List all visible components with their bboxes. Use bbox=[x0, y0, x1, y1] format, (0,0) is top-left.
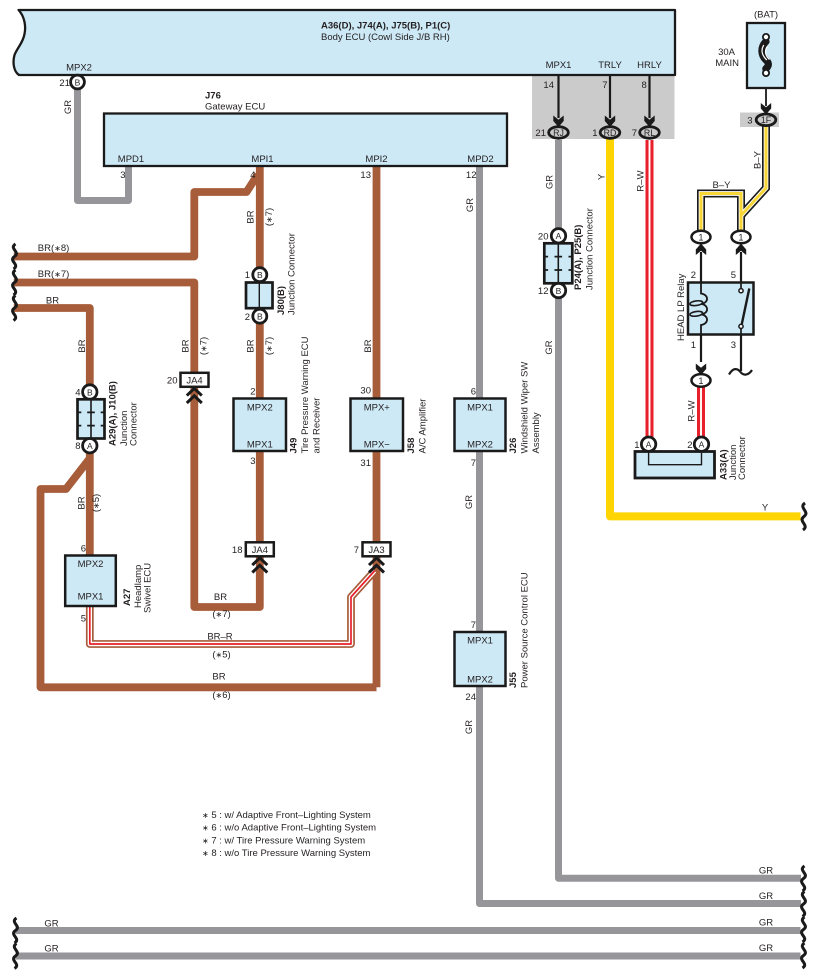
svg-text:Connector: Connector bbox=[737, 436, 748, 480]
break symbol at BR left bbox=[13, 296, 17, 321]
wire BR(*8) from left break to MPI1 branch bbox=[14, 175, 258, 257]
svg-text:2: 2 bbox=[250, 387, 255, 398]
pin 12 of Gateway ECU bbox=[466, 170, 477, 181]
svg-text:A: A bbox=[646, 440, 652, 450]
svg-text:GR: GR bbox=[545, 175, 556, 189]
svg-text:B–Y: B–Y bbox=[713, 180, 732, 191]
svg-text:A/C Amplifier: A/C Amplifier bbox=[418, 399, 429, 454]
wire BR(*7) from left break through JA4(20), U-turn to JA4(18) and J49 pin 3 bbox=[14, 283, 260, 608]
svg-text:1: 1 bbox=[634, 440, 639, 451]
wire GR from Body ECU MPX2 pin 21 to Gateway ECU MPD1 pin 3 bbox=[78, 88, 129, 201]
svg-text:BR: BR bbox=[246, 339, 257, 352]
svg-text:J26: J26 bbox=[508, 438, 519, 454]
label BR on MPI2 wire bbox=[363, 339, 374, 352]
svg-text:J76: J76 bbox=[205, 91, 221, 102]
svg-text:BR: BR bbox=[212, 672, 225, 683]
break symbol at GR right line 4 bbox=[802, 943, 806, 968]
svg-text:5: 5 bbox=[81, 614, 86, 625]
svg-text:Assembly: Assembly bbox=[531, 412, 542, 453]
label GR at right break line 4 bbox=[759, 943, 773, 954]
svg-text:MPX2: MPX2 bbox=[467, 440, 493, 451]
ECU box A27 Headlamp Swivel ECU bbox=[65, 544, 153, 625]
svg-text:MPX−: MPX− bbox=[364, 440, 391, 451]
break symbol at Y right bbox=[802, 503, 806, 530]
label GR at right break line 3 bbox=[759, 918, 773, 929]
svg-text:MPX1: MPX1 bbox=[467, 403, 493, 414]
relay switch bbox=[740, 283, 742, 289]
wire BR from Gateway ECU MPI2 pin 13 to J58 pin 30 bbox=[373, 166, 381, 399]
label GR at right break line 2 bbox=[759, 891, 773, 902]
splice connector JA3 pin 7 bbox=[354, 542, 391, 572]
svg-text:B: B bbox=[75, 77, 81, 87]
oval connector 1 above relay pin 5 bbox=[732, 231, 751, 244]
svg-text:Junction Connector: Junction Connector bbox=[287, 233, 298, 315]
break symbol at BR(*7) left bbox=[13, 270, 17, 295]
fuse 30A MAIN (BAT) bbox=[715, 10, 785, 89]
svg-text:5: 5 bbox=[731, 270, 736, 281]
wire R-W from RL oval to A33 pin 1 bbox=[646, 140, 654, 437]
svg-text:MPX2: MPX2 bbox=[247, 403, 273, 414]
label GR (RJ wire upper) bbox=[545, 175, 556, 189]
svg-text:BR: BR bbox=[77, 496, 88, 509]
oval connector RJ pin 21 bbox=[535, 127, 568, 139]
relay HEAD LP Relay bbox=[676, 270, 754, 351]
svg-text:4: 4 bbox=[75, 388, 80, 399]
svg-text:J58: J58 bbox=[406, 438, 417, 454]
svg-text:MAIN: MAIN bbox=[715, 58, 739, 69]
svg-text:(∗6): (∗6) bbox=[212, 690, 230, 701]
oval connector RD pin 1 bbox=[592, 127, 620, 139]
label BR / (*7) on JA4-20 wire bbox=[181, 337, 210, 355]
svg-text:1: 1 bbox=[592, 128, 597, 139]
svg-text:GR: GR bbox=[759, 891, 773, 902]
svg-text:MPX1: MPX1 bbox=[546, 60, 572, 71]
break symbol at GR right line 1 bbox=[802, 866, 806, 891]
svg-text:(∗5): (∗5) bbox=[212, 650, 230, 661]
svg-text:TRLY: TRLY bbox=[598, 60, 622, 71]
break symbol at GR right line 2 bbox=[802, 892, 806, 917]
svg-text:BR(∗8): BR(∗8) bbox=[38, 243, 70, 254]
wire BR from J58 pin 31 through JA3 splice to BR(*6) bus bbox=[373, 451, 381, 687]
svg-text:(∗7): (∗7) bbox=[264, 208, 275, 226]
pin 13 of Gateway ECU bbox=[360, 170, 371, 181]
svg-text:GR: GR bbox=[759, 866, 773, 877]
label GR at left line 3 bbox=[44, 919, 58, 930]
svg-text:Windshield Wiper SW: Windshield Wiper SW bbox=[520, 362, 531, 454]
svg-text:Power Source Control ECU: Power Source Control ECU bbox=[520, 572, 531, 688]
label BR / (*5) on A29-A27 wire bbox=[77, 494, 103, 512]
svg-text:31: 31 bbox=[360, 458, 371, 469]
svg-text:7: 7 bbox=[471, 620, 476, 631]
wire fuse to 1F connector with arrow bbox=[761, 76, 771, 115]
svg-text:MPX+: MPX+ bbox=[364, 403, 391, 414]
label BR (third left line) bbox=[46, 296, 59, 307]
wire BR from Gateway ECU MPI1 pin 4 through J80 to J49 pin 2 bbox=[256, 166, 264, 399]
svg-text:MPD1: MPD1 bbox=[118, 154, 144, 165]
break symbol at GR right line 3 bbox=[802, 917, 806, 942]
label BR-R (*5) on A27 pin5 wire bbox=[207, 632, 232, 661]
wire relay pin 5 up to oval 1 with arrow bbox=[736, 244, 746, 283]
wire BR from left break to A29/J10 junction connector bbox=[14, 308, 90, 392]
svg-text:GR: GR bbox=[759, 943, 773, 954]
label GR (MPD2 wire middle) bbox=[464, 495, 475, 509]
wire GR from Gateway ECU MPD2 through J26 and J55 to bottom right break bbox=[480, 166, 802, 904]
svg-text:MPX1: MPX1 bbox=[467, 636, 493, 647]
connector circle B on Body ECU MPX2 bbox=[71, 75, 85, 89]
ECU box J58 A/C Amplifier bbox=[351, 386, 429, 470]
svg-text:∗ 7 : w/ Tire Pressure Warning: ∗ 7 : w/ Tire Pressure Warning System bbox=[202, 835, 365, 846]
svg-text:∗ 8 : w/o Tire Pressure Warnin: ∗ 8 : w/o Tire Pressure Warning System bbox=[202, 848, 371, 859]
Body ECU box A36(D),J74(A),J75(B),P1(C) bbox=[14, 10, 675, 75]
svg-text:3: 3 bbox=[120, 170, 125, 181]
svg-text:RD: RD bbox=[604, 128, 617, 138]
label GR (MPX2 wire) bbox=[63, 100, 74, 114]
svg-text:GR: GR bbox=[544, 340, 555, 354]
wire relay pin 3 down to open end bbox=[729, 335, 752, 375]
svg-text:4: 4 bbox=[250, 170, 255, 181]
pin 8 of Body ECU bbox=[642, 80, 647, 91]
svg-text:8: 8 bbox=[75, 441, 80, 452]
svg-text:21: 21 bbox=[59, 78, 70, 89]
svg-text:BR: BR bbox=[46, 296, 59, 307]
svg-text:BR(∗7): BR(∗7) bbox=[38, 269, 70, 280]
junction connector A29(A), J10(B) bbox=[75, 381, 139, 453]
label Y (RD wire) bbox=[597, 173, 608, 180]
label GR at right break line 1 bbox=[759, 866, 773, 877]
label BR(*8) bbox=[38, 243, 70, 254]
svg-text:(BAT): (BAT) bbox=[754, 10, 778, 21]
svg-text:MPX1: MPX1 bbox=[247, 440, 273, 451]
wire HRLY pin 8 to RL with arrow bbox=[644, 75, 654, 127]
wire R-W from relay pin 1 oval to A33 pin 2 bbox=[697, 386, 705, 437]
break symbol at BR(*8) left bbox=[13, 244, 17, 269]
svg-text:P24(A), P25(B): P24(A), P25(B) bbox=[573, 225, 584, 290]
svg-text:13: 13 bbox=[360, 170, 371, 181]
relay coil bbox=[701, 283, 707, 335]
svg-text:GR: GR bbox=[44, 944, 58, 955]
svg-text:B: B bbox=[556, 286, 562, 296]
svg-text:30A: 30A bbox=[718, 47, 736, 58]
wire relay pin 2 up to oval 1 with arrow bbox=[696, 244, 706, 283]
label B-Y (horizontal) bbox=[713, 180, 732, 191]
svg-text:24: 24 bbox=[465, 692, 476, 703]
svg-text:1: 1 bbox=[739, 232, 744, 242]
wire B-Y from fuse 1F to head lamp relay pins 2 and 5 : black outline bbox=[701, 127, 766, 232]
label R-W (RL wire) bbox=[636, 170, 647, 191]
svg-text:2: 2 bbox=[687, 440, 692, 451]
svg-text:7: 7 bbox=[632, 128, 637, 139]
svg-text:2: 2 bbox=[691, 270, 696, 281]
svg-text:A27: A27 bbox=[122, 589, 133, 606]
svg-text:B: B bbox=[257, 312, 263, 322]
label B-Y (vertical feed) bbox=[753, 150, 764, 169]
svg-text:20: 20 bbox=[538, 232, 549, 243]
svg-text:A29(A), J10(B): A29(A), J10(B) bbox=[108, 381, 119, 446]
svg-text:1F: 1F bbox=[761, 115, 772, 125]
oval connector RL pin 7 bbox=[632, 127, 660, 139]
svg-text:BR: BR bbox=[363, 339, 374, 352]
svg-text:2: 2 bbox=[245, 312, 250, 323]
svg-text:RL: RL bbox=[644, 128, 655, 138]
svg-text:7: 7 bbox=[471, 458, 476, 469]
splice connector JA4 pin 18 bbox=[232, 542, 274, 572]
svg-text:R–W: R–W bbox=[687, 400, 698, 421]
svg-text:Tire Pressure Warning ECU: Tire Pressure Warning ECU bbox=[300, 336, 311, 453]
label Y at right break bbox=[762, 503, 769, 514]
pin 4 of Gateway ECU bbox=[250, 170, 255, 181]
svg-text:21: 21 bbox=[535, 128, 546, 139]
pin 3 of Gateway ECU bbox=[120, 170, 125, 181]
svg-text:1: 1 bbox=[245, 270, 250, 281]
svg-text:MPD2: MPD2 bbox=[467, 154, 493, 165]
pin 14 of Body ECU bbox=[543, 80, 554, 91]
junction connector P24(A), P25(B) bbox=[538, 208, 596, 298]
svg-text:R–W: R–W bbox=[636, 170, 647, 191]
svg-text:MPX2: MPX2 bbox=[78, 559, 104, 570]
svg-text:(∗7): (∗7) bbox=[199, 337, 210, 355]
gray shaded background of connector 1F bbox=[740, 113, 779, 128]
gray shaded background under Body ECU outputs bbox=[532, 75, 675, 139]
svg-text:GR: GR bbox=[465, 198, 476, 212]
ECU box J49 Tire Pressure Warning ECU and Receiver bbox=[234, 336, 323, 467]
svg-text:BR–R: BR–R bbox=[207, 632, 232, 643]
wire Y from RD oval to right break bbox=[610, 139, 801, 516]
svg-text:MPX1: MPX1 bbox=[78, 592, 104, 603]
svg-text:Swivel ECU: Swivel ECU bbox=[143, 563, 154, 613]
label R-W (relay output wire) bbox=[687, 400, 698, 421]
label GR (MPD2 wire lower) bbox=[464, 720, 475, 734]
label GR at left line 4 bbox=[44, 944, 58, 955]
svg-text:7: 7 bbox=[602, 80, 607, 91]
svg-text:A: A bbox=[699, 440, 705, 450]
wire MPX1 pin 14 to RJ with arrow bbox=[553, 75, 563, 127]
svg-text:BR: BR bbox=[77, 339, 88, 352]
svg-text:6: 6 bbox=[471, 387, 476, 398]
svg-text:B–Y: B–Y bbox=[753, 150, 764, 169]
svg-text:∗ 5 : w/ Adaptive Front–Lighti: ∗ 5 : w/ Adaptive Front–Lighting System bbox=[202, 810, 371, 821]
pin 21 of Body ECU bbox=[59, 78, 70, 89]
svg-text:18: 18 bbox=[232, 545, 243, 556]
svg-text:HRLY: HRLY bbox=[637, 60, 662, 71]
svg-text:(∗7): (∗7) bbox=[212, 609, 230, 620]
svg-text:J55: J55 bbox=[508, 671, 519, 688]
svg-text:12: 12 bbox=[466, 170, 477, 181]
junction connector A33(A) bbox=[634, 436, 748, 480]
svg-text:J49: J49 bbox=[289, 438, 300, 454]
label GR (MPD2 wire upper) bbox=[465, 198, 476, 212]
wire GR from RJ to P24 junction and bottom right break bbox=[559, 140, 802, 878]
wire BR(*5) from A29 pin 8 down to A27 pin 6 bbox=[86, 450, 94, 556]
svg-text:and Receiver: and Receiver bbox=[312, 398, 323, 454]
svg-text:(∗7): (∗7) bbox=[264, 337, 275, 355]
svg-text:1: 1 bbox=[699, 376, 704, 386]
svg-text:J80(B): J80(B) bbox=[276, 286, 287, 315]
label GR (RJ wire lower) bbox=[544, 340, 555, 354]
svg-text:GR: GR bbox=[44, 919, 58, 930]
label BR on A29 feed wire bbox=[77, 339, 88, 352]
svg-text:∗ 6 : w/o Adaptive Front–Light: ∗ 6 : w/o Adaptive Front–Lighting System bbox=[202, 823, 376, 834]
svg-text:8: 8 bbox=[642, 80, 647, 91]
svg-text:3: 3 bbox=[731, 340, 736, 351]
svg-text:A: A bbox=[556, 231, 562, 241]
svg-text:GR: GR bbox=[464, 495, 475, 509]
svg-text:30: 30 bbox=[360, 386, 371, 397]
svg-text:3: 3 bbox=[747, 116, 752, 127]
svg-text:(∗5): (∗5) bbox=[91, 494, 102, 512]
svg-text:JA4: JA4 bbox=[252, 545, 268, 556]
svg-text:HEAD LP Relay: HEAD LP Relay bbox=[676, 273, 687, 341]
break symbol at GR left line 4 bbox=[14, 944, 18, 969]
label BR (*6) on bottom brown bus bbox=[212, 672, 230, 702]
svg-text:GR: GR bbox=[759, 918, 773, 929]
svg-text:BR: BR bbox=[246, 210, 257, 223]
break symbol at GR left line 3 bbox=[14, 918, 18, 943]
svg-text:14: 14 bbox=[543, 80, 554, 91]
svg-text:BR: BR bbox=[181, 339, 192, 352]
svg-text:BR: BR bbox=[214, 592, 227, 603]
svg-text:Body ECU (Cowl Side J/B RH): Body ECU (Cowl Side J/B RH) bbox=[321, 32, 450, 43]
svg-text:Gateway ECU: Gateway ECU bbox=[205, 102, 265, 113]
svg-text:1: 1 bbox=[699, 232, 704, 242]
junction connector J80(B) bbox=[245, 233, 298, 323]
ECU box J55 Power Source Control ECU bbox=[455, 572, 531, 703]
label BR(*7) bbox=[38, 269, 70, 280]
svg-text:GR: GR bbox=[63, 100, 74, 114]
wire GR bottom bus line 3 bbox=[16, 927, 801, 934]
svg-text:Connector: Connector bbox=[129, 402, 140, 446]
wire BR(*6) branch from A29 pin 8 wire, around bottom to JA3 splice bbox=[41, 459, 377, 687]
label BR (*7) on JA4 U wire bbox=[212, 592, 230, 620]
svg-text:JA4: JA4 bbox=[186, 375, 202, 386]
wire TRLY pin 7 to RD with arrow bbox=[605, 75, 615, 127]
svg-text:A: A bbox=[87, 441, 93, 451]
oval connector 1 above relay pin 2 bbox=[692, 231, 711, 244]
wire GR bottom bus line 4 bbox=[16, 953, 801, 960]
svg-text:A36(D), J74(A), J75(B), P1(C): A36(D), J74(A), J75(B), P1(C) bbox=[321, 21, 450, 32]
pin 7 of Body ECU bbox=[602, 80, 607, 91]
oval connector 1F pin 3 bbox=[747, 114, 776, 127]
svg-text:MPI1: MPI1 bbox=[251, 154, 273, 165]
svg-text:Y: Y bbox=[597, 173, 608, 180]
svg-text:6: 6 bbox=[81, 544, 86, 555]
svg-text:20: 20 bbox=[167, 375, 178, 386]
wire relay pin 1 down to oval 1 with arrow bbox=[696, 335, 706, 376]
Gateway ECU box J76 bbox=[104, 91, 507, 167]
svg-text:MPI2: MPI2 bbox=[365, 154, 387, 165]
svg-text:12: 12 bbox=[538, 286, 549, 297]
svg-text:RJ: RJ bbox=[553, 128, 564, 138]
svg-text:1: 1 bbox=[691, 340, 696, 351]
label BR / (*7) on MPI1 wire bbox=[246, 208, 276, 226]
svg-text:Junction Connector: Junction Connector bbox=[585, 208, 596, 290]
svg-text:JA3: JA3 bbox=[368, 545, 384, 556]
label BR / (*7) on J49 pin2 wire bbox=[246, 337, 276, 355]
svg-text:B: B bbox=[257, 270, 263, 280]
oval connector 1 below relay pin 1 bbox=[692, 374, 711, 387]
svg-text:MPX2: MPX2 bbox=[467, 675, 493, 686]
svg-text:7: 7 bbox=[354, 545, 359, 556]
splice connector JA4 pin 20 bbox=[167, 373, 209, 403]
wire BR-R(*5) from A27 pin 5 to JA3 splice : brown outer bbox=[90, 571, 375, 644]
svg-text:GR: GR bbox=[464, 720, 475, 734]
footnotes bbox=[202, 810, 376, 859]
svg-text:Y: Y bbox=[762, 503, 769, 514]
svg-text:B: B bbox=[87, 387, 93, 397]
svg-text:MPX2: MPX2 bbox=[66, 63, 92, 74]
svg-text:3: 3 bbox=[250, 456, 255, 467]
SW box J26 Windshield Wiper SW Assembly bbox=[455, 362, 543, 469]
